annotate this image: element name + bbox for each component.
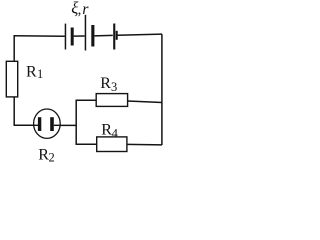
svg-text:R: R <box>26 64 37 81</box>
wire: battery to top-right corner <box>117 34 162 35</box>
component R2: circular device (circle) <box>34 109 61 138</box>
battery U1 cell 1 short thick plate <box>71 28 74 46</box>
wire: R3 to right vertical <box>128 101 162 103</box>
svg-text:2: 2 <box>49 150 55 164</box>
svg-text:r: r <box>82 1 89 18</box>
battery U1 cell 2 short thick plate <box>91 25 94 47</box>
svg-text:,: , <box>78 2 82 18</box>
R2 internal left thick bar <box>38 117 41 131</box>
resistor R3 (box) <box>96 94 127 107</box>
battery U1 cell 2 long plate <box>85 15 87 51</box>
wire: between battery cell 2 and cell 3 <box>94 34 113 37</box>
resistor R1 (box) <box>6 61 17 97</box>
wire: top-left horizontal (node + of battery to left branch) <box>14 35 65 37</box>
svg-text:4: 4 <box>112 126 119 140</box>
wire: R2 to parallel-branch left bus <box>60 124 76 126</box>
resistor R4 (box) <box>97 137 127 152</box>
wire: right vertical (top-right corner to bottom-right corner) <box>161 34 163 145</box>
wire: bus to R3 <box>76 99 97 101</box>
wire: bottom-left horizontal to R2 device <box>14 124 35 126</box>
svg-text:R: R <box>100 75 111 92</box>
wire: left vertical from top corner down to R1 <box>13 35 15 61</box>
R2 internal right thick bar <box>50 117 54 131</box>
R2 internal right stub wire <box>54 124 60 126</box>
R2 internal left stub wire <box>34 124 38 126</box>
wire: R4 to bottom-right corner <box>127 143 162 146</box>
battery U1 cell 3 short thick plate <box>116 31 118 40</box>
svg-text:3: 3 <box>111 80 117 94</box>
wire: bus to R4 <box>76 143 97 145</box>
battery U1 cell 3 long plate <box>113 24 115 50</box>
wire: left vertical from R1 down to bottom-left corner <box>13 97 15 125</box>
battery U1 (ξ, r) cell 1 long plate <box>65 24 67 50</box>
svg-text:1: 1 <box>37 67 43 81</box>
wire: left bus vertical (junction of R3/R4 branches) <box>75 100 77 145</box>
wire: between battery cell 1 and cell 2 <box>74 35 85 37</box>
